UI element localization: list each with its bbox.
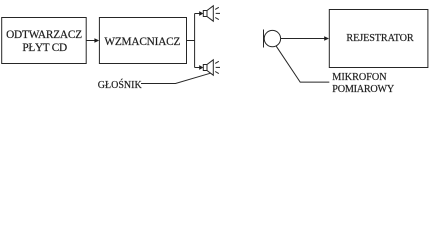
svg-text:REJESTRATOR: REJESTRATOR (346, 33, 414, 44)
svg-text:GŁOŚNIK: GŁOŚNIK (98, 79, 143, 91)
svg-text:ODTWARZACZ: ODTWARZACZ (6, 29, 82, 41)
svg-text:MIKROFON: MIKROFON (332, 72, 387, 83)
svg-text:PŁYT CD: PŁYT CD (22, 42, 67, 54)
svg-text:WZMACNIACZ: WZMACNIACZ (104, 36, 180, 48)
svg-text:POMIAROWY: POMIAROWY (332, 84, 395, 95)
